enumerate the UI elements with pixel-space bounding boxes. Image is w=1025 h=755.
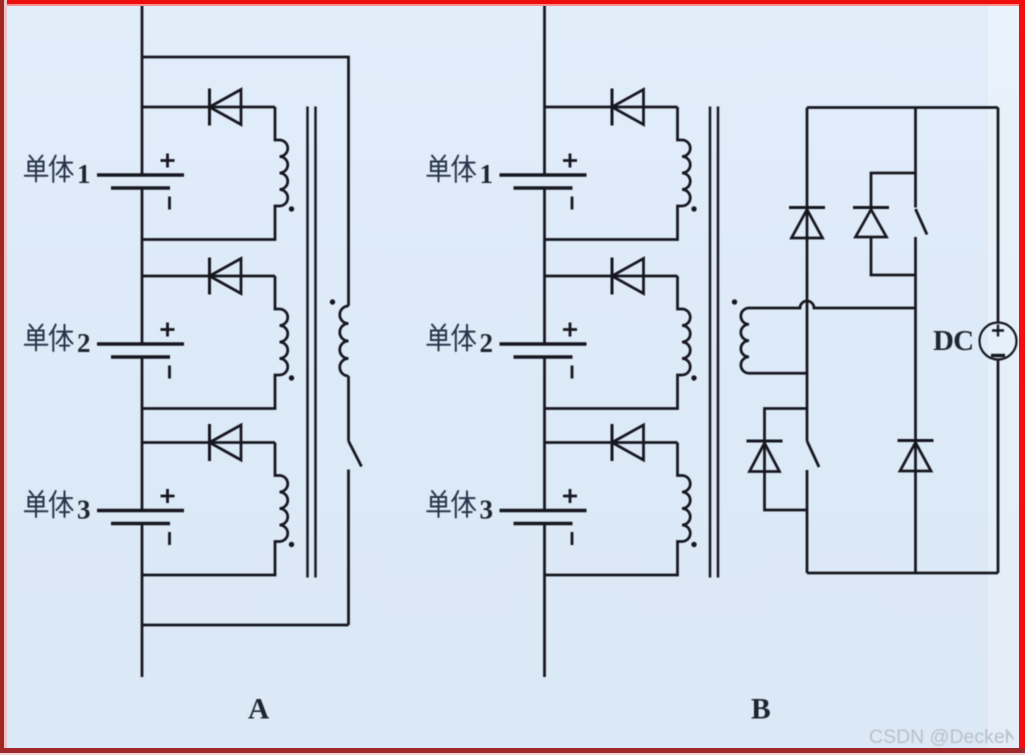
svg-text:2: 2: [480, 328, 494, 358]
label 单体3 B: [427, 491, 450, 517]
diode D2 bar: [853, 206, 889, 209]
diode D2 triangle: [856, 210, 887, 238]
DC source circle: [980, 323, 1017, 360]
svg-text:3: 3: [480, 495, 494, 525]
inductor secondary winding B: [741, 308, 749, 373]
wire top rail A: [142, 57, 349, 306]
wire left branch B: [806, 108, 809, 442]
transformer core B: [710, 107, 718, 578]
DC source plus: [992, 325, 1004, 337]
wire top rail B: [807, 106, 998, 109]
svg-text:2: 2: [77, 328, 91, 358]
wire right branch B upper: [997, 108, 1000, 323]
svg-text:A: A: [248, 694, 270, 726]
diode D3 bar: [898, 439, 934, 442]
svg-text:DC: DC: [933, 325, 973, 357]
diode D4 vertical link: [763, 441, 766, 474]
wire bottom rail B: [807, 572, 998, 575]
switch blade A: [349, 441, 362, 467]
cell unit B3: [500, 424, 697, 575]
wire right branch B lower: [997, 360, 1000, 574]
cell unit A2: [97, 258, 294, 409]
wire middle branch B lower: [914, 237, 917, 573]
label 单体1 A: [25, 156, 48, 182]
wire secondary top with hop: [749, 301, 916, 308]
diode D4 triangle: [750, 443, 780, 472]
wire bracket diode D4: [765, 409, 808, 511]
diode D1 triangle: [792, 210, 823, 239]
bus bar circuit A: [141, 4, 144, 677]
cell unit B1: [500, 89, 697, 240]
diode D1 bar: [789, 206, 825, 209]
label 单体1 B: [427, 156, 450, 182]
wire secondary bottom B: [749, 372, 807, 375]
wire bottom rail A: [142, 624, 349, 627]
cell unit B2: [500, 258, 697, 409]
diode D3 triangle: [900, 443, 931, 472]
cell unit A1: [97, 89, 294, 240]
bus bar circuit B: [543, 4, 546, 677]
wire middle branch B upper: [914, 108, 917, 208]
diode D4 bar: [747, 440, 783, 443]
cell unit A3: [97, 424, 294, 575]
switch blade lower B: [807, 441, 819, 467]
label 单体2 A: [25, 325, 48, 351]
polarity dot secondary B: [732, 299, 737, 304]
inductor secondary winding A: [340, 306, 349, 376]
DC source minus: [991, 354, 1005, 357]
watermark tick: [1006, 730, 1014, 740]
svg-text:B: B: [751, 694, 771, 726]
switch blade upper B: [916, 209, 928, 235]
label 单体3 A: [25, 491, 48, 517]
transformer core A: [308, 107, 316, 578]
wire secondary to switch A: [347, 376, 350, 441]
svg-text:1: 1: [480, 159, 494, 189]
wire bracket diode D2: [871, 173, 916, 275]
wire switch to bottom A: [347, 470, 350, 626]
wire below lower switch: [806, 470, 809, 573]
svg-text:CSDN @Decker: CSDN @Decker: [869, 726, 1012, 748]
label 单体2 B: [427, 325, 450, 351]
svg-text:3: 3: [77, 495, 91, 525]
svg-text:1: 1: [77, 159, 91, 189]
polarity dot secondary A: [330, 299, 335, 304]
